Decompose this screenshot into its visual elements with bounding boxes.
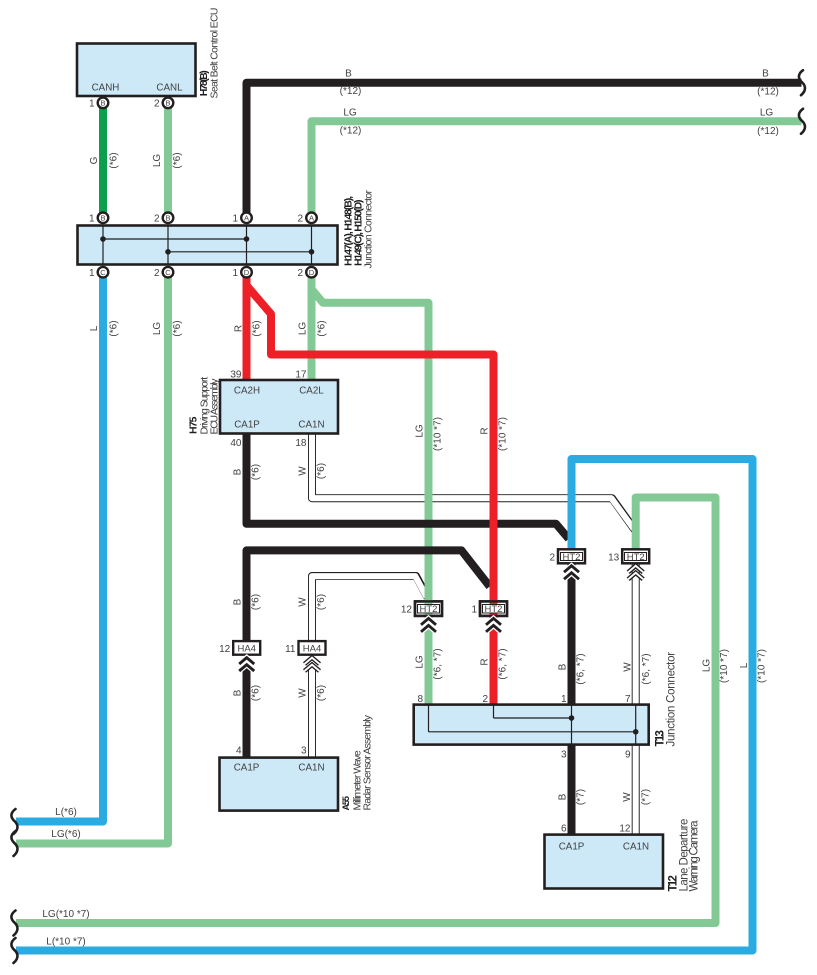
H147 internal column wire 2A-2D [311, 226, 313, 265]
H147 internal column wire 1A-1D [246, 226, 248, 265]
svg-text:(*12): (*12) [757, 87, 779, 98]
connector 11 HA4 [299, 641, 326, 671]
svg-text:LG: LG [760, 108, 774, 119]
svg-text:12: 12 [219, 644, 231, 655]
wire W T13 pin9 to T12 CA1N pin12 (white core) [633, 745, 639, 835]
svg-text:3: 3 [561, 750, 567, 761]
svg-text:(*12): (*12) [340, 86, 362, 97]
svg-text:(*6): (*6) [316, 463, 327, 479]
T13 internal bus pin2 to pin1 [494, 717, 572, 719]
wire W A55 CA1N via 11 HA4 corner to 12 HT2 (outline) [312, 576, 428, 644]
connector 1 HT2 [480, 600, 507, 632]
svg-text:CA1P: CA1P [234, 763, 260, 774]
svg-text:LG(*10 *7): LG(*10 *7) [42, 909, 89, 920]
wire B H147 pin1A to top-right break [247, 83, 802, 218]
svg-text:C: C [100, 268, 106, 277]
svg-text:(*6): (*6) [109, 320, 120, 336]
wire W A55 CA1N via 11 HA4 corner to 12 HT2 (white core) [312, 576, 427, 645]
node at 1A column [244, 236, 250, 242]
svg-text:(*12): (*12) [757, 126, 779, 137]
pin 2C H147 [163, 267, 174, 278]
wire LG H78 pin2 to H147 pin2B [164, 103, 172, 218]
wire G H78 pin1 to H147 pin1B [99, 103, 107, 218]
svg-text:L: L [89, 325, 100, 331]
wire W 11 HA4 to A55 CA1N pin3 (outline) [308, 666, 316, 758]
svg-text:HT2: HT2 [627, 552, 645, 563]
wire W T13 pin9 to T12 CA1N pin12 (outline) [632, 745, 640, 835]
svg-text:R: R [480, 427, 491, 434]
wire LG H147 pin2C to bottom-left break [16, 272, 168, 843]
svg-text:LG: LG [152, 154, 163, 168]
H147 internal column wire 1B-1C [102, 226, 104, 265]
wire B 12 HA4 to A55 CA1P pin4 [243, 666, 251, 758]
T13 internal column pin7-pin9 [635, 705, 637, 745]
svg-text:1: 1 [89, 268, 95, 279]
svg-text:40: 40 [230, 438, 242, 449]
svg-text:12: 12 [619, 824, 631, 835]
wire L H147 pin1C to bottom-left break [16, 272, 103, 821]
junction connector box T13 [414, 705, 649, 745]
pin 1B H147 [98, 213, 109, 224]
svg-text:2: 2 [297, 268, 303, 279]
wire B A55 CA1P via 12 HA4 corner right joining R above 1 HT2 [247, 550, 490, 644]
break symbol LG left [11, 831, 17, 856]
svg-text:CANL: CANL [156, 83, 183, 94]
svg-text:(*6): (*6) [172, 152, 183, 168]
svg-text:HT2: HT2 [420, 604, 438, 615]
svg-text:(*12): (*12) [340, 126, 362, 137]
svg-text:2: 2 [297, 214, 303, 225]
svg-text:(*6, *7): (*6, *7) [576, 653, 587, 684]
pin 2B H147 [163, 213, 174, 224]
svg-text:R: R [234, 325, 245, 332]
svg-text:(*7): (*7) [576, 789, 587, 805]
svg-text:G: G [89, 156, 100, 164]
wire LG H147 pin2A to top-right break [312, 121, 802, 218]
svg-text:(*6, *7): (*6, *7) [433, 648, 444, 679]
svg-text:18: 18 [295, 438, 307, 449]
svg-text:1: 1 [232, 268, 238, 279]
svg-text:4: 4 [236, 746, 242, 757]
H147 internal bus 1B-1A [103, 238, 247, 240]
svg-text:39: 39 [230, 370, 242, 381]
svg-text:2: 2 [154, 268, 160, 279]
svg-text:2: 2 [154, 214, 160, 225]
H147 internal column wire 2B-2C [167, 226, 169, 265]
svg-text:7: 7 [625, 694, 631, 705]
ECU box H75 Driving Support ECU Assembly [220, 380, 338, 434]
svg-text:W: W [622, 792, 633, 802]
H147 internal bus 2C-2D [168, 251, 312, 253]
svg-text:B: B [165, 99, 170, 108]
pin 1(B) H78 [98, 98, 109, 109]
svg-text:(*6): (*6) [317, 320, 328, 336]
svg-text:C: C [165, 268, 171, 277]
svg-text:LG: LG [702, 659, 713, 673]
svg-text:HT2: HT2 [485, 604, 503, 615]
svg-text:(*10 *7): (*10 *7) [757, 649, 768, 683]
svg-text:W: W [298, 466, 309, 476]
ECU box A55 Millimeter Wave Radar Sensor Assembly [220, 758, 339, 811]
pin 2(B) H78 [163, 98, 174, 109]
wire LG H147 pin2D to H75 CA2L pin17 [308, 272, 316, 380]
svg-text:1: 1 [561, 694, 567, 705]
wire W H75 CA1N pin18 to 13 HT2 (outline) [312, 430, 635, 530]
node at 2D column [309, 249, 315, 255]
svg-text:B: B [558, 663, 569, 670]
wire B 2 HT2 to T13 pin1 [568, 556, 576, 705]
svg-text:LG: LG [298, 322, 309, 336]
svg-text:(*6): (*6) [251, 594, 262, 610]
node T13 pin1 column [569, 715, 575, 721]
svg-text:CA1P: CA1P [234, 420, 260, 431]
svg-text:B: B [233, 468, 244, 475]
svg-text:11: 11 [285, 644, 296, 655]
wire W H75 CA1N pin18 to 13 HT2 (white core) [312, 429, 634, 529]
svg-text:(*10 *7): (*10 *7) [498, 417, 509, 451]
svg-text:(*6): (*6) [172, 320, 183, 336]
node at 1B column [100, 236, 106, 242]
svg-text:Junction Connector: Junction Connector [363, 190, 375, 269]
svg-text:Seat Belt Control ECU: Seat Belt Control ECU [209, 8, 221, 99]
svg-text:3: 3 [301, 746, 307, 757]
svg-text:(*6): (*6) [316, 594, 327, 610]
svg-text:CA1N: CA1N [623, 842, 649, 853]
wire LG branch H147 pin2D to 12 HT2 to T13 pin8 [312, 289, 429, 705]
pin 1C H147 [98, 267, 109, 278]
svg-text:(*10 *7): (*10 *7) [719, 649, 730, 683]
svg-text:(*10 *7): (*10 *7) [433, 417, 444, 451]
svg-text:(*6, *7): (*6, *7) [641, 653, 652, 684]
svg-text:9: 9 [625, 750, 631, 761]
svg-text:L(*6): L(*6) [55, 807, 77, 818]
T13 internal column pin1-pin3 [571, 705, 573, 745]
node at 2C column [165, 249, 171, 255]
svg-text:L(*10 *7): L(*10 *7) [46, 937, 85, 948]
svg-text:1: 1 [89, 99, 95, 110]
wire R H147 pin1D to H75 CA2H pin39 [243, 272, 251, 380]
T13 internal stub pin2 [493, 705, 495, 718]
svg-text:(*6): (*6) [251, 464, 262, 480]
svg-text:8: 8 [417, 694, 423, 705]
svg-text:B: B [100, 99, 105, 108]
pin 1A H147 [241, 213, 252, 224]
ECU box T12 Lane Departure Warning Camera [545, 835, 664, 889]
svg-text:ECU Assembly: ECU Assembly [209, 378, 221, 435]
svg-text:B: B [165, 214, 170, 223]
wire B H75 CA1P pin40 corner right joining L above 2 HT2 [247, 430, 569, 539]
svg-text:13: 13 [608, 553, 620, 564]
svg-text:1: 1 [232, 214, 238, 225]
connector 12 HA4 [233, 641, 260, 671]
svg-text:R: R [480, 658, 491, 665]
svg-text:(*6): (*6) [251, 685, 262, 701]
svg-text:A55: A55 [341, 796, 351, 811]
svg-text:LG: LG [415, 655, 426, 669]
svg-text:2: 2 [482, 694, 488, 705]
wire LG 13 HT2 up and right down to bottom-left break [16, 498, 716, 924]
pin 2D H147 [306, 267, 317, 278]
svg-text:B: B [233, 689, 244, 696]
wire B T13 pin3 to T12 CA1P pin6 [568, 745, 576, 835]
svg-text:(*6): (*6) [316, 685, 327, 701]
svg-text:B: B [762, 69, 769, 80]
svg-text:12: 12 [401, 605, 413, 616]
svg-text:B: B [233, 598, 244, 605]
svg-text:Junction Connector: Junction Connector [666, 652, 678, 747]
svg-text:HA4: HA4 [237, 643, 255, 654]
svg-text:2: 2 [154, 99, 160, 110]
wire R branch H147 pin1D to 1 HT2 to T13 pin2 [247, 286, 494, 705]
wire L 2 HT2 up right and down to bottom-left break [16, 459, 753, 951]
svg-text:W: W [298, 597, 309, 607]
break symbol LG top right [799, 109, 805, 134]
break symbol LG bottom left [11, 911, 17, 936]
svg-text:HA4: HA4 [303, 643, 321, 654]
svg-text:LG: LG [415, 424, 426, 438]
svg-text:(*6): (*6) [109, 152, 120, 168]
svg-text:CANH: CANH [92, 83, 120, 94]
svg-text:B: B [100, 214, 105, 223]
wire W 13 HT2 to T13 pin7 (white core) [633, 556, 639, 705]
svg-text:CA1N: CA1N [298, 763, 324, 774]
svg-text:Radar Sensor Assembly: Radar Sensor Assembly [362, 714, 374, 810]
svg-text:CA2H: CA2H [234, 386, 260, 397]
node T13 pin9 column [633, 729, 639, 735]
svg-text:D: D [244, 268, 250, 277]
svg-text:LG(*6): LG(*6) [51, 829, 80, 840]
break symbol L left [11, 809, 17, 834]
svg-text:LG: LG [343, 108, 357, 119]
svg-text:(*6): (*6) [252, 320, 263, 336]
svg-text:(*6, *7): (*6, *7) [498, 648, 509, 679]
svg-text:2: 2 [549, 553, 555, 564]
pin 2A H147 [306, 213, 317, 224]
connector 2 HT2 [558, 549, 585, 579]
connector 13 HT2 [622, 549, 649, 579]
svg-text:Warning Camera: Warning Camera [689, 820, 701, 892]
break symbol L bottom left [11, 938, 17, 963]
svg-text:(*7): (*7) [641, 789, 652, 805]
svg-text:B: B [345, 69, 352, 80]
svg-text:1: 1 [89, 214, 95, 225]
wire W 13 HT2 to T13 pin7 (outline) [632, 556, 640, 705]
svg-text:LG: LG [152, 322, 163, 336]
ECU box H78 Seat Belt Control ECU [77, 44, 196, 97]
svg-text:B: B [558, 793, 569, 800]
svg-text:W: W [623, 662, 634, 672]
svg-text:17: 17 [295, 370, 307, 381]
svg-text:L: L [739, 662, 750, 668]
svg-text:A: A [309, 214, 314, 223]
svg-text:CA2L: CA2L [299, 386, 324, 397]
svg-text:CA1P: CA1P [559, 842, 585, 853]
svg-text:CA1N: CA1N [298, 420, 324, 431]
svg-text:A: A [244, 214, 249, 223]
svg-text:6: 6 [561, 824, 567, 835]
svg-text:W: W [298, 688, 309, 698]
break symbol B top right [799, 70, 805, 95]
svg-text:HT2: HT2 [563, 552, 581, 563]
T13 internal stub pin8 [428, 705, 430, 732]
connector 12 HT2 [415, 600, 442, 632]
svg-text:1: 1 [471, 605, 477, 616]
wire W 11 HA4 to A55 CA1N pin3 (white core) [309, 666, 315, 758]
junction connector box H147/H148/H149/H150 [78, 226, 338, 265]
pin 1D H147 [241, 267, 252, 278]
T13 internal bus pin8 to pin9 [429, 731, 636, 733]
svg-text:D: D [309, 268, 315, 277]
